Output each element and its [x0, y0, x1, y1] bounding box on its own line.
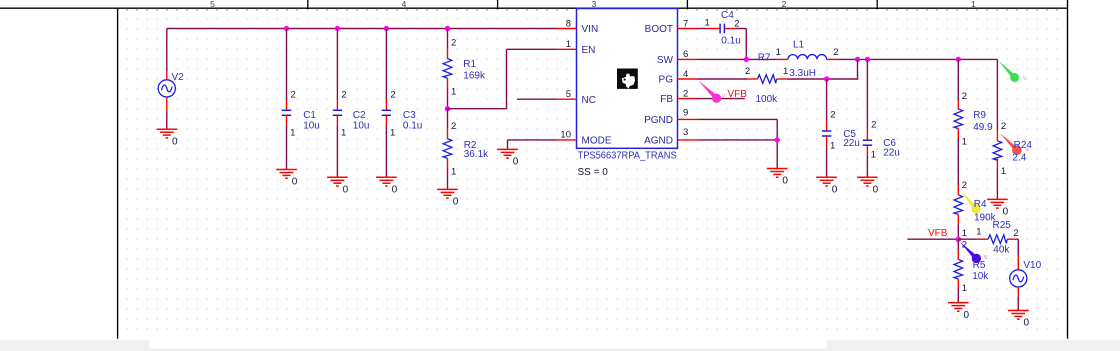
C3 pin 2 stub	[385, 100, 387, 110]
wire VFB	[908, 238, 959, 240]
svg-text:2: 2	[451, 121, 456, 132]
svg-text:36.1k: 36.1k	[464, 149, 489, 160]
svg-text:2: 2	[833, 47, 838, 58]
R25 pin 1 stub	[977, 238, 988, 240]
wire SW to L1	[697, 58, 777, 60]
source V2	[158, 80, 175, 97]
ground MODE	[497, 149, 518, 158]
svg-text:100k: 100k	[756, 94, 779, 105]
ground C1	[276, 170, 297, 179]
svg-text:0.1u: 0.1u	[403, 121, 422, 132]
svg-text:10u: 10u	[303, 121, 320, 132]
junction VOUT/R7 riser	[855, 57, 860, 62]
wire R4 to VFB node	[957, 224, 959, 239]
resistor R9	[954, 109, 963, 129]
svg-text:AGND: AGND	[644, 136, 673, 147]
C1 pin 2 stub	[286, 100, 288, 110]
C2 pin 1 stub	[336, 116, 338, 126]
R9 pin 1 stub	[957, 129, 959, 139]
junction VOUT/C6	[865, 57, 870, 62]
wire PG to R7	[698, 78, 748, 80]
probe R24 (red)	[1000, 133, 1022, 155]
svg-text:2: 2	[962, 180, 967, 191]
svg-text:3: 3	[683, 127, 688, 138]
pin 8 VIN stub	[557, 28, 577, 30]
svg-text:v: v	[1025, 145, 1029, 154]
junction SW/C4	[744, 57, 749, 62]
svg-text:1: 1	[1001, 166, 1006, 177]
svg-text:2: 2	[451, 38, 456, 49]
V2 pin - stub	[166, 97, 168, 110]
svg-text:C2: C2	[353, 110, 366, 121]
svg-text:5: 5	[566, 89, 571, 100]
R25 pin 2 stub	[1007, 238, 1017, 240]
svg-text:R9: R9	[973, 110, 986, 121]
pin 4 PG stub	[678, 78, 698, 80]
svg-text:2.4: 2.4	[1012, 152, 1026, 163]
wire BOOT drop to SW	[745, 29, 747, 60]
ruler tick	[876, 0, 878, 9]
svg-text:VFB: VFB	[728, 89, 748, 100]
wire C5 bottom	[826, 147, 828, 178]
wire VIN rail	[167, 28, 557, 30]
wire C5 top	[826, 79, 828, 121]
svg-text:1: 1	[976, 227, 981, 238]
wire C6 top	[866, 59, 868, 129]
wire VOUT	[837, 58, 997, 60]
wire PGND drop	[776, 119, 778, 168]
probe VOUT (green)	[998, 60, 1019, 82]
svg-text:2: 2	[745, 66, 750, 77]
wire C6 bottom	[866, 156, 868, 178]
ground C6	[857, 177, 878, 186]
C5 pin 2 stub	[826, 121, 828, 131]
svg-text:VFB: VFB	[928, 228, 948, 239]
wire MODE ground drop	[507, 140, 509, 150]
svg-text:2: 2	[871, 120, 876, 131]
resistor R5	[954, 259, 963, 279]
capacitor C1	[282, 110, 291, 115]
probe R5 (blue)	[960, 242, 981, 263]
svg-text:1: 1	[451, 167, 456, 178]
C3 pin 1 stub	[385, 116, 387, 126]
wire EN vertical	[506, 49, 508, 108]
svg-text:1: 1	[783, 66, 788, 77]
V2 pin + stub	[166, 72, 168, 80]
svg-text:2: 2	[390, 90, 395, 101]
svg-text:0: 0	[782, 176, 788, 187]
R7 pin 1 stub	[777, 78, 787, 80]
resistor R2	[443, 139, 452, 159]
svg-text:PG: PG	[659, 75, 674, 86]
wire R2 bottom	[447, 168, 449, 189]
scrollbar thumb	[149, 340, 826, 349]
ground R2	[437, 189, 458, 198]
ground PGND/AGND	[767, 169, 788, 178]
pin 3 AGND stub	[678, 139, 698, 141]
ruler tick	[497, 0, 499, 9]
wire NC	[517, 98, 557, 100]
svg-text:10k: 10k	[972, 271, 989, 282]
capacitor C2	[333, 110, 342, 115]
svg-text:1: 1	[341, 127, 346, 138]
ground R5	[948, 303, 969, 312]
C6 pin 1 stub	[866, 146, 868, 156]
svg-text:1: 1	[290, 127, 295, 138]
svg-text:5: 5	[210, 0, 215, 9]
C6 pin 2 stub	[866, 130, 868, 140]
svg-text:49.9: 49.9	[973, 122, 993, 133]
svg-text:0: 0	[392, 185, 398, 196]
svg-text:0: 0	[513, 157, 519, 168]
svg-text:SW: SW	[657, 55, 674, 66]
svg-text:L1: L1	[793, 40, 805, 51]
wire EN horizontal upper	[507, 48, 557, 50]
junction C3/rail	[384, 26, 389, 31]
V10 pin + stub	[1017, 256, 1019, 269]
wire V10 drop	[1017, 239, 1019, 256]
svg-text:TPS56637RPA_TRANS: TPS56637RPA_TRANS	[578, 150, 678, 161]
pin 9 PGND stub	[678, 118, 698, 120]
svg-text:2: 2	[1013, 228, 1018, 239]
svg-text:R7: R7	[758, 52, 771, 63]
svg-text:PGND: PGND	[644, 115, 673, 126]
R5 pin 2 stub	[957, 249, 959, 259]
wire BOOT to C4	[697, 28, 706, 30]
svg-text:2: 2	[291, 90, 296, 101]
svg-text:R24: R24	[1014, 140, 1033, 151]
wire V10 to ground	[1017, 297, 1019, 311]
svg-text:FB: FB	[660, 94, 673, 105]
svg-text:v: v	[1023, 73, 1027, 82]
svg-text:V2: V2	[172, 72, 185, 83]
svg-text:C4: C4	[721, 10, 734, 21]
R2 pin 1 stub	[447, 158, 449, 168]
probe R4 (yellow)	[961, 191, 981, 214]
svg-text:R1: R1	[463, 59, 476, 70]
right page border	[1067, 0, 1069, 339]
wire C2 top	[336, 29, 338, 101]
svg-text:22u: 22u	[883, 147, 900, 158]
svg-text:4: 4	[683, 69, 688, 80]
svg-text:1: 1	[451, 87, 456, 98]
pin 10 MODE stub	[557, 139, 577, 141]
dot grid	[118, 9, 1067, 332]
pin 6 SW stub	[678, 58, 698, 60]
op-amp/IC U1 TPS56637RPA_TRANS body	[577, 9, 678, 149]
resistor R7	[758, 75, 777, 84]
wire PGND	[697, 118, 777, 120]
capacitor C3	[382, 110, 391, 115]
wire R5 top	[957, 239, 959, 249]
TI logo	[617, 69, 638, 89]
junction C1/rail	[284, 26, 289, 31]
wire R5 bottom	[957, 289, 959, 303]
ground R24	[987, 199, 1008, 208]
wire AGND	[697, 139, 777, 141]
C4 pin 1 stub	[706, 28, 719, 30]
ground V2	[157, 129, 178, 138]
svg-text:1: 1	[971, 0, 976, 9]
wire EN horizontal lower	[448, 108, 507, 110]
svg-text:2: 2	[734, 18, 739, 29]
wire MODE	[508, 139, 557, 141]
R2 pin 2 stub	[447, 129, 449, 139]
svg-text:v: v	[722, 91, 726, 100]
C2 pin 2 stub	[336, 100, 338, 110]
svg-text:3.3uH: 3.3uH	[789, 68, 816, 79]
svg-text:VIN: VIN	[582, 24, 599, 35]
wire V2 to ground	[166, 110, 168, 129]
svg-text:1: 1	[962, 228, 967, 239]
svg-text:MODE: MODE	[582, 136, 612, 147]
ruler tick	[686, 0, 688, 9]
ground C5	[816, 177, 837, 186]
resistor R24	[993, 141, 1002, 161]
junction R1/R2/EN	[445, 106, 450, 111]
svg-text:1: 1	[962, 137, 967, 148]
wire R1 top	[447, 29, 449, 49]
pin 5 NC stub	[557, 98, 577, 100]
junction R1/rail	[445, 26, 450, 31]
wire V2 to rail	[166, 29, 168, 72]
R1 pin 2 stub	[447, 49, 449, 59]
left page border	[117, 8, 119, 339]
svg-text:2: 2	[1001, 121, 1006, 132]
junction R7/C5	[824, 76, 829, 81]
ground C2	[327, 177, 348, 186]
svg-text:1: 1	[776, 47, 781, 58]
C1 pin 1 stub	[286, 116, 288, 126]
ground C3	[376, 177, 397, 186]
wire VFB to R25	[958, 238, 977, 240]
svg-text:3: 3	[592, 0, 597, 9]
svg-text:R4: R4	[974, 199, 987, 210]
C5 pin 1 stub	[826, 136, 828, 146]
wire R1 to node	[447, 88, 449, 108]
probe VFB (magenta)	[698, 80, 721, 102]
wire R25 to V10	[1017, 238, 1018, 240]
wire riser R7 to VOUT	[857, 59, 859, 79]
svg-text:NC: NC	[582, 95, 596, 106]
wire R2 top	[447, 109, 449, 129]
svg-text:2: 2	[782, 0, 787, 9]
svg-text:1: 1	[566, 39, 571, 50]
svg-text:0: 0	[1024, 318, 1030, 329]
ground V10	[1008, 311, 1029, 320]
svg-text:0: 0	[1003, 207, 1009, 218]
svg-text:10: 10	[560, 130, 571, 141]
junction PGND/AGND	[775, 137, 780, 142]
wire C2 bottom	[336, 126, 338, 177]
svg-text:0.1u: 0.1u	[721, 36, 740, 47]
R7 pin 2 stub	[748, 78, 758, 80]
pin 1 EN stub	[557, 48, 577, 50]
svg-text:0: 0	[343, 185, 349, 196]
resistor R1	[443, 59, 452, 79]
svg-text:1: 1	[705, 18, 710, 29]
svg-text:BOOT: BOOT	[645, 24, 673, 35]
ruler line	[0, 7, 1068, 9]
junction VOUT/R9	[956, 57, 961, 62]
V10 pin - stub	[1017, 288, 1019, 297]
resistor R25	[988, 235, 1007, 244]
capacitor C5	[822, 131, 831, 136]
svg-text:1: 1	[962, 283, 967, 294]
svg-text:169k: 169k	[463, 71, 486, 82]
svg-text:22u: 22u	[843, 138, 860, 149]
svg-text:2: 2	[683, 88, 688, 99]
svg-text:0: 0	[292, 177, 298, 188]
scrollbar track	[0, 340, 1120, 351]
svg-text:0: 0	[172, 136, 178, 147]
R24 pin 1 stub	[996, 159, 998, 169]
capacitor C4	[720, 24, 724, 34]
svg-text:2: 2	[341, 90, 346, 101]
svg-text:0: 0	[453, 197, 459, 208]
wire C3 bottom	[385, 126, 387, 177]
wire R7 to riser	[787, 78, 859, 80]
inductor L1	[788, 55, 827, 60]
svg-text:9: 9	[683, 107, 688, 118]
svg-text:1: 1	[830, 140, 835, 151]
pin 7 BOOT stub	[678, 28, 698, 30]
svg-text:1: 1	[871, 149, 876, 160]
junction VFB	[956, 237, 961, 242]
wire FB	[698, 98, 745, 100]
svg-text:2: 2	[962, 91, 967, 102]
svg-text:C3: C3	[403, 110, 416, 121]
R9 pin 2 stub	[957, 101, 959, 109]
wire C1 top	[286, 29, 288, 101]
svg-text:V10: V10	[1023, 260, 1041, 271]
svg-text:10u: 10u	[353, 121, 370, 132]
capacitor C6	[863, 140, 872, 145]
R5 pin 1 stub	[957, 279, 959, 289]
wire R24 top	[996, 59, 998, 130]
svg-text:1: 1	[390, 127, 395, 138]
R24 pin 2 stub	[996, 130, 998, 141]
R1 pin 1 stub	[447, 78, 449, 88]
wire R9 to R4	[957, 139, 959, 187]
svg-text:SS = 0: SS = 0	[578, 167, 609, 178]
svg-text:EN: EN	[582, 45, 596, 56]
svg-text:7: 7	[683, 18, 688, 29]
junction C2/rail	[335, 26, 340, 31]
R4 pin 2 stub	[957, 186, 959, 195]
pin 2 FB stub	[678, 98, 698, 100]
svg-text:6: 6	[683, 49, 688, 60]
L1 pin 2 stub	[827, 58, 838, 60]
wire R9 top	[957, 59, 959, 101]
svg-text:0: 0	[832, 185, 838, 196]
wire R24 bottom	[996, 169, 998, 199]
svg-text:R5: R5	[973, 260, 986, 271]
L1 pin 1 stub	[777, 58, 788, 60]
svg-text:0: 0	[964, 310, 970, 321]
ruler tick	[307, 0, 309, 9]
svg-text:C1: C1	[303, 110, 316, 121]
svg-text:2: 2	[830, 110, 835, 121]
source V10	[1010, 270, 1027, 287]
resistor R4	[954, 195, 963, 215]
wire C4 to SW corner	[736, 28, 747, 30]
R4 pin 1 stub	[957, 214, 959, 224]
svg-text:40k: 40k	[993, 244, 1010, 255]
svg-text:0: 0	[873, 185, 879, 196]
C4 pin 2 stub	[725, 28, 736, 30]
svg-text:R25: R25	[993, 220, 1012, 231]
svg-text:4: 4	[402, 0, 407, 9]
svg-text:8: 8	[566, 18, 571, 29]
wire C1 bottom	[286, 126, 288, 170]
wire C3 top	[385, 29, 387, 101]
ruler minor ticks	[127, 8, 1057, 10]
